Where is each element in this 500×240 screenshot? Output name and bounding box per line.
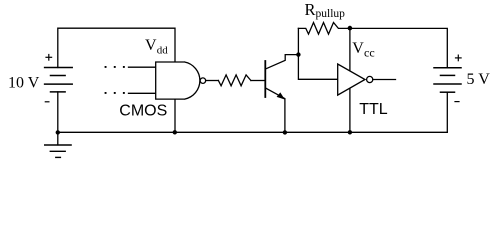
wire TTL output [373,79,396,81]
wire NAND output [206,80,219,82]
ground [45,132,71,157]
svg-text:5 V: 5 V [467,71,491,88]
input ellipsis dots [105,66,107,68]
wire to base [251,80,265,82]
op-amp U2 TTL buffer [338,64,365,95]
wire Vcc line [349,28,351,71]
svg-text:CMOS: CMOS [119,102,167,119]
polarity marks battery B1 [45,56,52,58]
battery B1 10 V [45,68,73,133]
node junction dots [56,130,60,134]
battery B2 5 V [434,68,461,133]
svg-text:pullup: pullup [316,8,346,20]
polarity marks battery B2 [455,57,462,59]
resistor R1 series [218,75,251,86]
transistor Q1 NPN [265,55,298,133]
svg-text:dd: dd [157,45,169,57]
wire top-left rail [58,28,175,67]
wire NAND input stubs [129,66,156,68]
op-amp U1 CMOS NAND gate [156,62,200,99]
svg-text:10 V: 10 V [8,74,40,91]
svg-text:TTL: TTL [359,101,388,118]
resistor R2 pullup [298,23,350,35]
wire bottom rail [58,131,448,133]
svg-text:R: R [305,0,316,19]
svg-text:V: V [145,37,157,54]
wire pullup left leg [297,28,299,54]
wire top-right rail [350,28,447,67]
svg-text:cc: cc [364,46,375,60]
svg-text:V: V [352,40,364,57]
wire Vdd line below gate [174,99,176,132]
